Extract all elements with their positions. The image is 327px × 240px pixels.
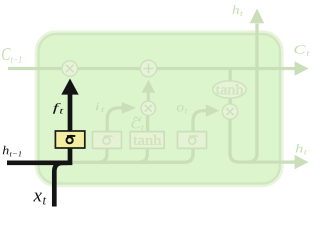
node: forget multiply circle — [62, 61, 78, 77]
wire: x_t input line curving into h line (black) — [54, 163, 67, 207]
wire: main line end curve into output sigma stem — [185, 148, 194, 162]
wire: branch curve into tanh stem — [139, 148, 147, 162]
wire: tanh box output up into input multiply — [146, 115, 149, 132]
node: output multiply circle — [222, 104, 237, 119]
label: h_t top — [233, 5, 244, 16]
wire: bottom h line faded continuation — [70, 161, 185, 164]
wire: h_t-1 input line and forget gate stem (black) — [7, 88, 70, 163]
label: C_t — [294, 45, 309, 56]
wire: input multiply up into add circle — [147, 92, 150, 101]
wire: output gate branch up with arrow into output multiply — [193, 111, 206, 132]
arrowhead: h_t top output — [250, 9, 264, 24]
wire: tanh ellipse down into output multiply — [229, 98, 232, 104]
ellipse: output tanh — [213, 81, 247, 98]
label: x_t black — [33, 193, 46, 205]
wire: output multiply down then right as h_t output — [230, 119, 296, 162]
node: add circle — [140, 60, 156, 76]
label: o_t — [177, 105, 188, 114]
arrowhead: C_t output — [295, 61, 309, 75]
wire: cell state line C_t-1 to C_t — [8, 67, 296, 70]
wire: cell state down into output tanh ellipse — [229, 69, 232, 82]
label: h_t right — [296, 144, 307, 154]
box: candidate tanh — [130, 132, 164, 149]
arrowhead: h_t right output — [295, 155, 309, 169]
cell body — [39, 34, 281, 184]
box: input gate sigma — [93, 132, 122, 149]
label: C-tilde_t — [132, 120, 145, 131]
wire: branch curve into input sigma stem — [99, 148, 108, 162]
label: h_t-1 black — [3, 146, 21, 157]
arrowhead: forget gate into multiply circle (black) — [61, 79, 78, 95]
label: i_t — [96, 103, 105, 113]
label: f_t black — [53, 103, 64, 114]
label: C_t-1 — [2, 48, 21, 63]
wire: input gate branch up with arrow into input multiply — [107, 108, 122, 132]
node: input multiply circle — [141, 101, 155, 115]
cell body halo — [38, 33, 282, 185]
box: forget gate sigma highlighted — [55, 131, 84, 148]
box: output gate sigma — [178, 132, 207, 149]
wire: h_t branch up to top output — [248, 24, 257, 163]
